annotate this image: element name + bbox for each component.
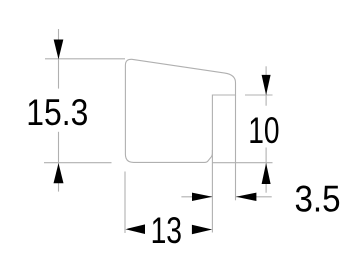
extension line bottom-right (base level, from rabbet wall rightwards) [212, 162, 272, 164]
arrow 13 left (points left to left ext line) [125, 224, 145, 234]
extension line right edge (down from shape right side) [235, 95, 237, 200]
extension line rabbet wall (down from shape to below 13 dim) [211, 150, 213, 233]
extension line top (apex level) [45, 58, 125, 60]
arrow 15.3 top (points down to apex line) [54, 40, 64, 60]
svg-text:15.3: 15.3 [26, 93, 88, 134]
arrow 10 bottom (points up to base line) [262, 163, 271, 184]
arrow 3.5 left (points right to wall line) [192, 193, 212, 201]
profile outline (moulding cross-section) [125, 59, 235, 162]
dimension line 15.3 upper segment [58, 29, 60, 89]
dimension line 3.5 right tail [236, 196, 272, 198]
extension line bottom-left (base level) [44, 162, 112, 164]
arrow 13 right (points right to wall ext line) [192, 225, 212, 235]
svg-text:3.5: 3.5 [294, 179, 340, 220]
arrow 3.5 right (points left to right-edge line) [236, 193, 256, 201]
extension line 13 left (below shape) [124, 172, 126, 234]
svg-text:13: 13 [151, 209, 182, 251]
arrow 10 top (points down to ledge line) [262, 75, 271, 95]
dimension line 15.3 lower segment [58, 132, 60, 192]
extension line rabbet ledge (right of shape) [245, 94, 273, 96]
dimension line 10 lower segment [265, 148, 267, 193]
arrow 15.3 bottom (points up to base line) [54, 163, 64, 183]
svg-text:10: 10 [248, 109, 279, 151]
dimension line 10 upper segment [265, 66, 267, 105]
dimension line 3.5 left tail [181, 196, 212, 198]
